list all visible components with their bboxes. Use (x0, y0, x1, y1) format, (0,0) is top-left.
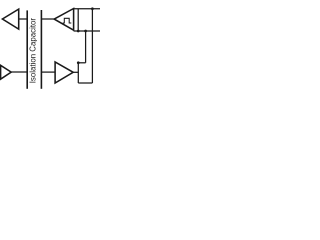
svg-text:Isolation Capacitor: Isolation Capacitor (29, 18, 38, 84)
